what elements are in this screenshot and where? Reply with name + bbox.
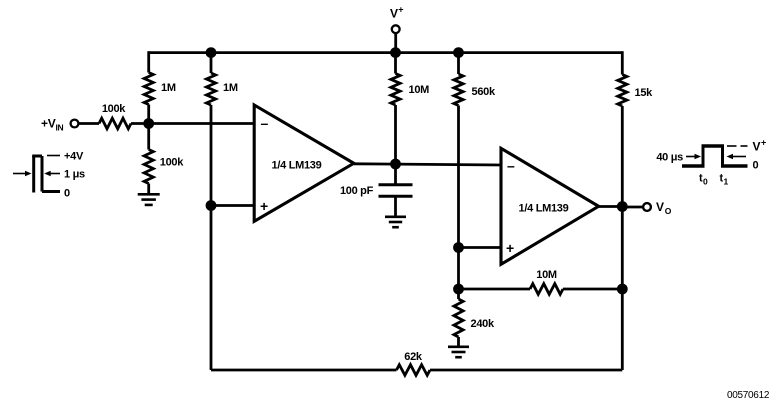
resistor R7 15k pull-up: [618, 75, 627, 107]
svg-text:100k: 100k: [102, 103, 126, 115]
svg-text:1 μs: 1 μs: [64, 169, 85, 181]
junction U2 output node: [617, 201, 628, 212]
svg-text:1M: 1M: [223, 82, 238, 94]
junction feedback node left: [453, 284, 464, 295]
wire feedback node left to 10M R9: [459, 288, 531, 291]
wire U1 output to U2 minus input: [354, 164, 502, 165]
svg-text:10M: 10M: [536, 269, 557, 281]
svg-text:1M: 1M: [161, 82, 176, 94]
svg-text:V: V: [390, 7, 398, 21]
svg-text:+V: +V: [41, 117, 56, 131]
wire R9 to feedback node right: [563, 288, 622, 291]
wire R6 down to U2 plus node: [457, 106, 460, 248]
wire top supply rail: [149, 51, 623, 54]
output pulse waveform icon: [682, 146, 748, 167]
node VO output terminal: [643, 200, 672, 216]
svg-text:100k: 100k: [160, 157, 184, 169]
junction on rail above 1M R2: [206, 47, 217, 58]
resistor R2 1M second: [206, 73, 215, 105]
input pulse waveform icon: [13, 156, 60, 193]
svg-text:+: +: [260, 198, 268, 214]
resistor R1 100k horizontal input: [99, 118, 131, 129]
wire output node to VO terminal: [622, 206, 643, 209]
wire bottom rail right segment: [430, 369, 622, 372]
wire U2 plus node down to feedback node: [457, 248, 460, 290]
ground below R4: [138, 193, 160, 196]
wire feedback node right down to bottom rail: [621, 289, 624, 370]
resistor R8 240k: [454, 299, 463, 337]
svg-text:–: –: [261, 115, 269, 131]
svg-text:1/4 LM139: 1/4 LM139: [519, 203, 569, 215]
wire R3 to input node: [147, 105, 150, 124]
wire rail down to 1M R2: [210, 53, 213, 73]
wire R7 down to U2 output node: [621, 106, 624, 207]
node +VIN input terminal: [41, 117, 78, 133]
svg-text:0: 0: [753, 160, 759, 172]
wire rail corner down to 15k R7: [621, 51, 624, 74]
label t1: [720, 173, 729, 187]
svg-text:0: 0: [703, 177, 708, 187]
wire rail down to 560k R6: [457, 53, 460, 74]
svg-text:+: +: [761, 138, 766, 148]
ground below R8: [448, 345, 469, 348]
svg-text:15k: 15k: [635, 87, 654, 99]
wire U2 output node down to feedback node right: [621, 207, 624, 290]
wire minus input comparator U1: [149, 122, 255, 125]
resistor R9 10M hysteresis feedback: [530, 284, 563, 295]
svg-text:40 μs: 40 μs: [656, 152, 683, 164]
svg-text:V: V: [753, 140, 761, 154]
wire feedback node down to 240k R8: [457, 289, 460, 299]
svg-text:+4V: +4V: [64, 151, 84, 163]
wire VIN terminal to R1: [79, 122, 100, 125]
svg-text:240k: 240k: [471, 318, 495, 330]
wire U2 output to output column: [599, 205, 623, 208]
svg-text:1: 1: [724, 177, 729, 187]
label V+ output level: [753, 138, 767, 154]
wire R5 to U1 output node: [394, 105, 397, 164]
junction feedback node right: [617, 284, 628, 295]
resistor R4 100k to ground: [144, 150, 153, 184]
wire R8 to ground: [457, 337, 460, 347]
svg-text:1/4 LM139: 1/4 LM139: [272, 160, 322, 172]
capacitor C1 100 pF: [379, 164, 413, 216]
wire R1 to input node: [131, 122, 149, 125]
junction U2 plus node: [453, 242, 464, 253]
wire R2 down to plus node of U1: [210, 105, 213, 206]
resistor R5 10M timing: [391, 74, 400, 106]
junction input node: [143, 118, 154, 129]
svg-text:00570612: 00570612: [727, 390, 770, 401]
junction on rail above 560k R6: [453, 47, 464, 58]
op-amp U2 comparator 1/4 LM139: [501, 148, 599, 264]
node V+ supply terminal: [390, 5, 403, 53]
wire R4 to ground: [147, 184, 150, 195]
junction plus node U1: [206, 200, 217, 211]
svg-text:–: –: [507, 158, 515, 174]
resistor R3 1M left: [144, 73, 153, 105]
svg-text:560k: 560k: [472, 86, 496, 98]
junction U1 output node: [390, 159, 401, 170]
svg-text:+: +: [398, 5, 403, 15]
resistor R10 62k feedback to U1 plus: [397, 365, 431, 376]
op-amp U1 comparator 1/4 LM139: [254, 105, 354, 221]
wire plus input comparator U2: [459, 246, 503, 249]
wire bottom rail left segment: [211, 369, 397, 372]
wire rail down to 1M R3: [147, 51, 150, 72]
svg-text:V: V: [656, 200, 664, 214]
svg-text:10M: 10M: [409, 84, 430, 96]
wire rail down to 10M R5: [394, 53, 397, 74]
label t0: [699, 173, 708, 187]
wire input node down to 100k R4: [147, 124, 150, 150]
svg-text:62k: 62k: [404, 351, 423, 363]
wire plus input comparator U1: [211, 204, 255, 207]
svg-text:100 pF: 100 pF: [340, 185, 374, 197]
svg-text:O: O: [665, 206, 672, 216]
svg-text:IN: IN: [56, 123, 64, 133]
ground below C1: [385, 216, 406, 219]
svg-text:+: +: [506, 240, 514, 256]
svg-text:0: 0: [64, 188, 70, 200]
resistor R6 560k: [454, 74, 463, 106]
junction on rail above 10M R5: [390, 47, 401, 58]
wire plus node down to bottom feedback rail: [210, 206, 213, 371]
